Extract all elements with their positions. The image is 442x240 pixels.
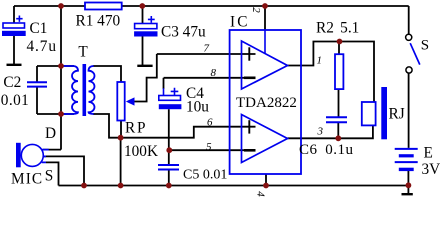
junction dot top rail pin2 [262,3,268,9]
minus mark op-amp A [244,77,256,80]
junction dot R2 top [337,39,343,45]
wire C5 top lead [168,150,170,164]
svg-text:S: S [421,37,429,53]
wire pin 2 riser [264,6,266,30]
junction dot rail RP net [118,183,124,189]
junction dot RP bottom [118,135,124,141]
wire C2 top lead [36,66,38,82]
microphone MIC [16,143,49,168]
wire RP net down to bottom rail [120,138,122,186]
speaker RJ bar [381,87,387,139]
svg-text:8: 8 [211,67,217,79]
wire R2 top lead [338,42,340,55]
wire pin 3 output [288,125,373,138]
junction dot rail mic [81,183,87,189]
C3 ground stub bar [137,65,152,67]
svg-text:7: 7 [204,43,210,55]
svg-text:S: S [45,168,54,185]
svg-text:4: 4 [254,191,266,197]
wire C3 bottom lead [142,37,144,66]
wire RP wiper staircase to pin7 [135,54,157,102]
wire left riser x61 (tank / mic D) [60,6,62,150]
svg-text:E: E [424,145,433,162]
junction dot C4/C5/pin5 [166,147,172,153]
junction dot top rail x61 [58,3,64,9]
svg-text:C6 0.1u: C6 0.1u [299,142,354,158]
junction dot rail battery [406,182,412,188]
speaker RJ frame [362,102,376,125]
wire pin 5 [170,149,256,151]
wire C1 bottom lead [13,36,15,64]
svg-text:2: 2 [250,7,262,13]
wire tank bottom horizontal [37,113,74,115]
capacitor C1 [2,16,26,37]
wire mic middle lead to rail [44,156,85,185]
transformer T primary winding [61,66,78,114]
svg-text:100K: 100K [124,143,158,160]
switch S bottom contact [406,67,412,73]
wire pin 7 [157,53,256,55]
wire C2 bottom lead [36,87,38,114]
wire secondary top lead to RP [93,66,121,82]
transformer T secondary winding [89,66,95,114]
svg-text:C5 0.01: C5 0.01 [183,168,227,183]
op-amp A (top) [242,41,288,89]
junction dot tank top [58,63,64,69]
wire secondary bottom lead [93,114,121,138]
svg-text:RJ: RJ [389,106,405,123]
resistor R1 [85,3,122,10]
svg-text:D: D [45,125,56,142]
resistor R2 [335,54,343,89]
junction dot rail C5 [166,183,172,189]
wire C4 bottom lead [168,109,170,150]
svg-text:1: 1 [317,55,323,67]
svg-text:TDA2822: TDA2822 [236,95,297,111]
svg-text:C2: C2 [3,74,21,91]
minus mark op-amp B [244,149,256,152]
wire top rail right segment [122,5,409,7]
potentiometer RP [117,82,134,121]
junction dot top rail C3 [139,3,145,9]
wire mic S lead [46,162,59,185]
capacitor C6 [326,117,347,122]
wire top rail left segment [14,5,85,7]
wire mic D lead [43,149,61,151]
plus mark op-amp B [248,120,250,133]
svg-text:RP: RP [125,120,147,137]
wire switch to battery [408,73,410,148]
IC box U1 [230,30,301,174]
junction dot tank bottom [58,111,64,117]
wire pin 1 output to R2 and RJ top [288,42,375,103]
svg-text:0.01: 0.01 [1,92,29,109]
switch S blade [410,43,420,64]
wire R2 bottom lead to C6 [338,89,340,116]
wire RP net to pin6 jog [121,127,256,138]
svg-text:10u: 10u [186,99,209,116]
wire pin 8 [164,77,256,79]
switch S top contact [406,34,412,40]
pin2 internal lead [264,30,266,54]
svg-text:6: 6 [207,117,213,129]
svg-text:R2 5.1: R2 5.1 [316,20,359,37]
wire C5 bottom lead [168,170,170,186]
capacitor C2 [27,82,47,86]
wire tank top horizontal [37,65,74,67]
wire C4 top lead [163,78,165,89]
svg-text:MIC: MIC [11,171,43,188]
svg-text:C3 47u: C3 47u [161,24,206,41]
svg-text:3: 3 [317,126,324,138]
svg-text:IC: IC [230,14,250,31]
svg-text:3V: 3V [422,161,441,178]
svg-text:4.7u: 4.7u [27,38,57,55]
wire C1 top lead [13,6,15,23]
op-amp B (bottom) [242,115,288,163]
svg-text:5: 5 [206,141,212,153]
junction dot C6 bottom [335,135,341,141]
wire battery bottom to rail [407,171,409,194]
svg-text:T: T [78,44,88,61]
capacitor C4 [159,88,182,110]
battery ground stub bar [402,193,413,195]
transformer T core [83,64,87,116]
capacitor C3 [134,16,157,37]
wire C3 top lead [142,6,144,24]
junction dot rail pin4 [263,183,269,189]
wire RP bottom lead [120,121,122,138]
capacitor C5 [158,165,179,170]
svg-text:C1: C1 [30,20,48,37]
battery E plates [395,149,418,171]
wire bottom rail [59,185,409,187]
wire top right corner to switch [408,6,410,34]
svg-text:R1 470: R1 470 [76,13,121,30]
plus mark op-amp A [248,47,250,60]
wire pin 4 drop [265,174,267,186]
wire C6 bottom lead [337,123,339,139]
C1 ground stub bar [7,64,22,66]
